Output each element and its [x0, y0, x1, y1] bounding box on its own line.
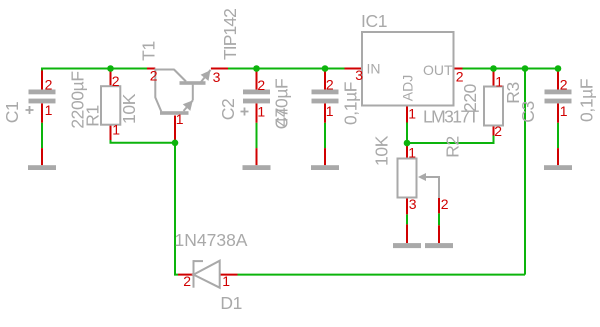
wire C4 to ground	[324, 123, 326, 148]
junction ADJ / R2	[404, 140, 411, 147]
svg-text:2: 2	[45, 77, 53, 93]
junction R3 top	[490, 65, 497, 72]
wire from R1 bottom to junction	[111, 140, 176, 143]
svg-text:TIP142: TIP142	[220, 9, 240, 60]
wire R2 wiper to ground	[438, 213, 440, 225]
junction R1 bottom / T1 emitter	[172, 140, 179, 147]
wire IC1 ADJ down to R2	[406, 123, 408, 146]
wire C1 to ground	[41, 123, 43, 148]
svg-text:220: 220	[460, 83, 480, 112]
op-amp/regulator IC1 LM317T	[345, 11, 480, 127]
svg-text:2: 2	[326, 77, 334, 93]
svg-text:10K: 10K	[372, 135, 392, 166]
ground under C4	[311, 148, 339, 170]
svg-text:2: 2	[494, 123, 502, 139]
svg-text:2: 2	[150, 67, 158, 83]
svg-text:10K: 10K	[119, 93, 139, 124]
svg-text:R1: R1	[83, 105, 103, 127]
ground under R2 pin3	[393, 224, 421, 248]
svg-text:3: 3	[409, 196, 417, 212]
svg-text:0,1µF: 0,1µF	[577, 79, 597, 122]
ground under C1	[28, 148, 56, 170]
svg-text:ADJ: ADJ	[400, 75, 416, 101]
junction C3 top	[555, 65, 562, 72]
svg-text:C2: C2	[218, 99, 238, 121]
svg-text:1: 1	[222, 273, 230, 289]
svg-text:1: 1	[176, 111, 184, 127]
svg-text:1: 1	[495, 74, 503, 90]
wire R2 pin3 to ground	[406, 214, 408, 224]
capacitor C1	[2, 71, 88, 129]
svg-text:C3: C3	[518, 101, 538, 123]
svg-text:1: 1	[45, 102, 53, 118]
wire ADJ junction to R3 bottom	[407, 136, 494, 144]
svg-text:2: 2	[183, 273, 191, 289]
capacitor C3	[518, 69, 597, 123]
svg-text:1: 1	[560, 103, 568, 119]
junction right rail top	[522, 65, 529, 72]
ground under C2	[243, 148, 271, 170]
svg-text:T1: T1	[139, 41, 159, 61]
svg-text:IN: IN	[367, 61, 381, 77]
junction R1 top	[107, 65, 114, 72]
transistor T1 (TIP142 darlington)	[139, 9, 241, 143]
svg-text:1: 1	[408, 145, 416, 161]
wire C2 to ground	[256, 123, 258, 148]
resistor R3	[460, 69, 523, 140]
wire from IC1 OUT to C3	[463, 68, 559, 70]
svg-text:1: 1	[408, 106, 416, 122]
svg-text:1: 1	[257, 104, 265, 120]
wire from T1 emitter to IC1 IN	[228, 68, 345, 70]
wire top-left net from C1 to T1 base	[42, 69, 147, 72]
diode D1 zener 1N4738A	[175, 230, 248, 313]
svg-text:OUT: OUT	[423, 62, 453, 78]
potentiometer R2	[372, 135, 463, 214]
svg-text:2: 2	[456, 69, 464, 85]
capacitor C2	[218, 69, 292, 127]
resistor R1	[83, 69, 140, 141]
capacitor C4	[272, 69, 361, 130]
wire vertical from R1/T1 junction down to D1 cathode	[175, 143, 178, 275]
junction C4 top	[322, 65, 329, 72]
junction C2 top	[253, 65, 260, 72]
wire vertical output right rail	[524, 69, 526, 275]
svg-text:C4: C4	[272, 107, 292, 129]
svg-text:2: 2	[441, 196, 449, 212]
svg-text:R2: R2	[443, 136, 463, 158]
ground under C3	[544, 148, 572, 170]
svg-text:IC1: IC1	[361, 11, 387, 31]
svg-text:3: 3	[213, 69, 221, 85]
svg-text:1N4738A: 1N4738A	[175, 230, 248, 250]
svg-text:2: 2	[560, 77, 568, 93]
svg-text:D1: D1	[220, 293, 242, 313]
ground under R2 wiper	[425, 225, 453, 248]
wire C3 to ground	[557, 123, 559, 148]
svg-text:2: 2	[112, 73, 120, 89]
svg-text:R3: R3	[503, 82, 523, 104]
svg-text:C1: C1	[2, 102, 22, 124]
svg-text:2: 2	[257, 77, 265, 93]
svg-text:3: 3	[355, 67, 363, 83]
svg-text:1: 1	[326, 103, 334, 119]
svg-text:0,1µF: 0,1µF	[341, 82, 361, 125]
wire bottom from D1 anode to right rail	[238, 274, 526, 276]
